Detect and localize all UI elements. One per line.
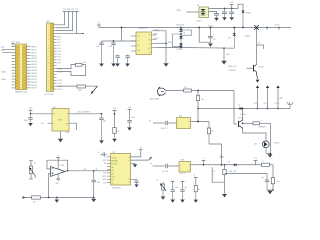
IC U2 pin stubs bbox=[131, 31, 157, 51]
svg-text:5V1: 5V1 bbox=[228, 37, 231, 39]
svg-text:10k: 10k bbox=[277, 181, 280, 183]
svg-text:V+: V+ bbox=[137, 41, 139, 43]
ground below C14 bbox=[28, 123, 33, 126]
svg-text:PB0.14: PB0.14 bbox=[31, 61, 38, 63]
svg-text:10u: 10u bbox=[184, 187, 187, 189]
svg-text:R2: R2 bbox=[34, 163, 36, 165]
wire PS1 out+ bbox=[209, 8, 214, 10]
svg-text:PB1.18: PB1.18 bbox=[31, 70, 38, 72]
svg-text:VCC V+: VCC V+ bbox=[180, 173, 186, 175]
svg-text:D3: D3 bbox=[183, 32, 185, 34]
capacitor C19 bbox=[261, 174, 269, 191]
ground arrow below Q3 bbox=[256, 80, 260, 83]
svg-text:V18: V18 bbox=[71, 9, 74, 11]
capacitor C15 bbox=[99, 114, 105, 140]
wire line in to C18 bbox=[150, 163, 165, 166]
svg-text:V+: V+ bbox=[193, 175, 195, 177]
svg-text:100n: 100n bbox=[175, 187, 179, 189]
wire opamp out to U3 bbox=[65, 170, 111, 172]
ground below loop bbox=[222, 194, 227, 197]
svg-text:2k2: 2k2 bbox=[184, 87, 187, 89]
connector J1 name label bbox=[47, 21, 51, 23]
rectifier PS1 body bbox=[199, 7, 209, 18]
ground below C20 bbox=[170, 200, 175, 203]
ground below C19 R18 bbox=[267, 191, 272, 195]
wire R15 to tbar net bbox=[209, 144, 222, 165]
ground below C16 bbox=[127, 127, 132, 130]
svg-text:7: 7 bbox=[53, 124, 54, 126]
svg-text:1k: 1k bbox=[213, 171, 215, 173]
svg-text:1k5: 1k5 bbox=[84, 62, 87, 64]
svg-text:100n C17: 100n C17 bbox=[161, 128, 168, 130]
ground below C11 bbox=[111, 64, 116, 67]
svg-text:BUZZ1: BUZZ1 bbox=[274, 143, 279, 145]
svg-text:OSC1: OSC1 bbox=[102, 176, 107, 178]
capacitor C21 bbox=[180, 181, 187, 199]
wire J1 pin to R10 bbox=[57, 85, 78, 87]
wire U3 vcc pin up bbox=[131, 149, 141, 157]
wire mic to Q4 base bbox=[234, 91, 237, 125]
IC U3 value bbox=[112, 187, 122, 189]
svg-text:4k7: 4k7 bbox=[198, 189, 201, 191]
ground below oscillator bbox=[58, 139, 63, 143]
microphone jack label bbox=[150, 98, 160, 101]
svg-text:10k: 10k bbox=[201, 99, 204, 101]
ground below RV1 bbox=[161, 197, 166, 200]
ground below C13 bbox=[125, 64, 130, 67]
diode chain labels bbox=[176, 25, 185, 51]
svg-text:CLK 14.7456MHZ: CLK 14.7456MHZ bbox=[77, 112, 91, 114]
svg-text:OUT3: OUT3 bbox=[275, 103, 279, 105]
transistor Q4 bbox=[239, 119, 243, 129]
wire loop to gnd bbox=[224, 182, 226, 194]
small part above U3 bbox=[98, 152, 108, 156]
diode D5 on audio bus bbox=[238, 105, 242, 110]
buzzer label bbox=[274, 143, 279, 145]
svg-text:V+: V+ bbox=[140, 147, 142, 149]
power gnd labels bbox=[226, 54, 237, 72]
wire U3 bottom-right pin bbox=[131, 178, 137, 180]
svg-text:1N4007 3X: 1N4007 3X bbox=[176, 25, 185, 27]
capacitor C11 bbox=[109, 41, 116, 64]
svg-text:C9: C9 bbox=[98, 152, 100, 154]
transistor Q4 labels bbox=[238, 114, 247, 120]
svg-text:T1: T1 bbox=[148, 35, 150, 37]
svg-text:2: 2 bbox=[180, 170, 181, 172]
IC3 name bbox=[179, 116, 183, 118]
svg-text:V+: V+ bbox=[57, 155, 59, 157]
svg-text:BE-MOD: BE-MOD bbox=[112, 161, 119, 163]
wire audio in to C17 bbox=[149, 120, 165, 123]
svg-text:PB1.19: PB1.19 bbox=[31, 73, 38, 75]
diode D4 bbox=[179, 43, 182, 47]
svg-text:V+: V+ bbox=[202, 158, 204, 160]
svg-text:2: 2 bbox=[178, 126, 179, 128]
oscillator Q5 name bbox=[53, 107, 56, 109]
svg-text:PB1.25: PB1.25 bbox=[31, 82, 38, 84]
wire Q4 collector up bbox=[242, 109, 244, 120]
wire JP2 left stubs bbox=[2, 50, 11, 53]
wire Q4 emitter down bbox=[243, 129, 267, 140]
ground below bottom bus bbox=[55, 198, 60, 203]
wire buzzer join bbox=[266, 153, 271, 155]
svg-text:T2: T2 bbox=[148, 44, 150, 46]
supply bar above JP2 bbox=[11, 41, 14, 46]
svg-text:PB0.11: PB0.11 bbox=[31, 52, 38, 54]
svg-text:4k7: 4k7 bbox=[211, 130, 214, 132]
svg-text:E1: E1 bbox=[258, 43, 260, 45]
svg-text:PB1.26: PB1.26 bbox=[31, 85, 38, 87]
resistor R20 bbox=[32, 196, 41, 204]
resistor R13 bbox=[242, 120, 271, 125]
connector arrows K1 K2 K3 bbox=[256, 85, 280, 109]
wire U2 left cap bus bbox=[102, 40, 122, 42]
resistor R9 bbox=[76, 62, 87, 66]
microphone jack X3 bbox=[158, 87, 184, 96]
svg-text:100n: 100n bbox=[24, 120, 28, 122]
svg-text:PB1.21: PB1.21 bbox=[31, 79, 38, 81]
svg-text:1N4007: 1N4007 bbox=[177, 49, 183, 51]
supply label C16 bbox=[128, 107, 131, 109]
svg-text:OUT2: OUT2 bbox=[264, 103, 268, 105]
IC U3 left labels bbox=[102, 157, 107, 185]
capacitor C16 bbox=[127, 109, 135, 127]
wire osc gnd pin bbox=[61, 131, 70, 139]
wire opamp plus input bbox=[48, 173, 51, 198]
IC U3 name bbox=[113, 152, 116, 154]
capacitor C13 bbox=[125, 55, 130, 64]
resistor R18 bbox=[271, 177, 279, 184]
wire U3 pin right arrow bbox=[131, 157, 152, 160]
wire U2 pin to gnd drop bbox=[157, 31, 167, 63]
svg-text:R1: R1 bbox=[148, 39, 150, 41]
wire VIN to PS1 bbox=[187, 11, 200, 13]
resistor R16 bbox=[262, 161, 270, 166]
diode D1 label bbox=[246, 13, 252, 15]
svg-text:3V3: 3V3 bbox=[128, 107, 131, 109]
connector JP2 pins 1-30 bbox=[12, 45, 31, 89]
wire U3 gnd pin bbox=[131, 162, 136, 165]
supply bar K-line bbox=[220, 155, 224, 157]
svg-text:OUT1: OUT1 bbox=[253, 103, 257, 105]
resistor R12 bbox=[196, 95, 203, 101]
connector arrow labels bbox=[253, 98, 283, 105]
connector JP2 body bbox=[16, 44, 27, 90]
ground below buzzer bbox=[268, 154, 273, 157]
svg-text:8: 8 bbox=[189, 121, 190, 123]
zener DZ1 label bbox=[228, 36, 250, 40]
wire opamp vcc bbox=[57, 158, 59, 169]
svg-text:1: 1 bbox=[178, 121, 179, 123]
rectifier PS1 labels bbox=[197, 5, 202, 22]
svg-text:DBG1: DBG1 bbox=[1, 79, 6, 81]
diode D7 bbox=[228, 162, 236, 167]
ground below C23 bbox=[91, 199, 96, 202]
net label VIN bbox=[177, 10, 182, 12]
resistor R15 bbox=[207, 122, 213, 145]
svg-text:C2+: C2+ bbox=[137, 50, 140, 52]
ground below C10 bbox=[99, 64, 104, 67]
svg-text:D5: D5 bbox=[238, 105, 240, 107]
svg-text:33p: 33p bbox=[103, 120, 106, 122]
svg-text:JACK-3.5MM: JACK-3.5MM bbox=[150, 98, 160, 101]
svg-text:1u: 1u bbox=[129, 57, 131, 59]
LED D6 label bbox=[254, 144, 258, 146]
wire IC3 out bbox=[191, 121, 210, 123]
svg-text:SPEAKER: SPEAKER bbox=[259, 126, 267, 129]
IC U2 right net labels bbox=[154, 29, 173, 44]
diode D1 bbox=[242, 10, 245, 28]
svg-text:100n: 100n bbox=[96, 46, 100, 48]
svg-text:IN+: IN+ bbox=[112, 167, 115, 169]
wire audio node drop bbox=[197, 91, 199, 123]
svg-text:4: 4 bbox=[189, 165, 190, 167]
cap stack labels bbox=[180, 173, 186, 175]
svg-text:3: 3 bbox=[189, 170, 190, 172]
opamp lower pin bbox=[55, 174, 60, 185]
supply bar mid bbox=[254, 158, 258, 165]
wire opamp feedback bbox=[47, 160, 68, 171]
svg-text:PB1.27: PB1.27 bbox=[31, 88, 38, 90]
ground below C21 bbox=[180, 200, 185, 203]
ground right of U3 bbox=[133, 164, 138, 167]
svg-text:LPC-P2106: LPC-P2106 bbox=[45, 94, 55, 96]
svg-text:X2-2: X2-2 bbox=[1, 47, 5, 49]
shield symbol bbox=[287, 102, 293, 109]
wire D2 bypass loop right bbox=[181, 30, 192, 35]
wire gnd tie bbox=[267, 189, 274, 191]
net labels on audio wire bbox=[84, 168, 98, 171]
wire rail to D2 bbox=[180, 27, 182, 29]
svg-text:PB0.12: PB0.12 bbox=[31, 55, 38, 57]
varistor RV1 bbox=[156, 180, 166, 196]
IC U2 name label bbox=[139, 26, 148, 29]
net flag arrow BSL bbox=[91, 86, 98, 94]
svg-text:PWM_OUT: PWM_OUT bbox=[228, 66, 238, 68]
wire J1 top power connections bbox=[57, 12, 77, 34]
capacitor C1 bbox=[214, 14, 219, 18]
capacitor C3 bbox=[229, 9, 234, 18]
svg-text:10n: 10n bbox=[261, 177, 264, 179]
capacitor C12 bbox=[115, 55, 120, 64]
transistor Q3 labels bbox=[228, 66, 263, 68]
connector J1 value label bbox=[45, 94, 55, 96]
diode D3 bbox=[179, 36, 182, 43]
ground below R19 bbox=[194, 200, 199, 203]
wire R13 to buzzer bbox=[259, 123, 271, 153]
wire R11 to node bbox=[192, 90, 235, 92]
wire bottom bus bbox=[23, 197, 95, 199]
svg-text:3V3: 3V3 bbox=[113, 108, 116, 110]
supply bar opamp bbox=[56, 155, 60, 158]
svg-text:3V3: 3V3 bbox=[63, 9, 66, 11]
IC U2 body bbox=[136, 32, 152, 55]
supply VCC bars above J1 bbox=[63, 9, 79, 11]
supply bar U3 bbox=[139, 147, 143, 149]
svg-text:LINE_OUT: LINE_OUT bbox=[229, 171, 238, 173]
svg-text:SOUND: SOUND bbox=[240, 114, 247, 116]
resistor R19 bbox=[194, 178, 201, 200]
net label bus2 bbox=[229, 171, 238, 173]
svg-text:PB1.16: PB1.16 bbox=[31, 64, 38, 66]
svg-text:14: 14 bbox=[53, 114, 55, 116]
diode D2 bbox=[179, 28, 182, 37]
svg-text:DB107: DB107 bbox=[197, 20, 202, 22]
capacitor C14 bbox=[24, 114, 33, 123]
resistor R10 bbox=[77, 85, 86, 92]
svg-text:BC639: BC639 bbox=[258, 66, 263, 68]
svg-text:10n C18: 10n C18 bbox=[162, 171, 168, 173]
svg-text:PB0.13: PB0.13 bbox=[31, 58, 38, 60]
resistor R19 top label bbox=[193, 175, 195, 177]
wire Q3 emitter bbox=[257, 74, 258, 79]
wire D3 bypass loop left bbox=[173, 33, 182, 47]
wire PS1 out- bbox=[209, 12, 217, 14]
svg-text:X2-3: X2-3 bbox=[1, 50, 5, 52]
ground below C22 bbox=[134, 184, 138, 187]
wire osc en bbox=[69, 123, 77, 130]
wire VCC drop to U2 bbox=[121, 27, 136, 41]
ground below U2 drop bbox=[163, 63, 168, 67]
svg-text:MT8870-ISO: MT8870-ISO bbox=[112, 187, 122, 189]
svg-text:D7: D7 bbox=[228, 162, 230, 164]
ground below R14 bbox=[112, 139, 117, 142]
connector J1 right net labels bbox=[57, 36, 63, 91]
wire rail L-drop bbox=[198, 27, 210, 43]
ground below C15 bbox=[99, 140, 104, 143]
capacitor C22 bbox=[135, 179, 139, 184]
wire J1 pin4 extension bbox=[77, 33, 84, 34]
svg-text:5: 5 bbox=[189, 126, 190, 128]
svg-text:C1+: C1+ bbox=[137, 36, 140, 38]
wire feedback loop at J1 bbox=[57, 65, 86, 76]
loop rect with R17 bbox=[212, 165, 226, 182]
transistor Q1 on rail bbox=[254, 25, 259, 64]
net flag bottom-left bbox=[23, 196, 26, 199]
wire osc out bbox=[69, 113, 102, 115]
capacitor C17 bbox=[161, 121, 177, 130]
wire IC4 out bus bbox=[191, 164, 274, 166]
IC4 name bbox=[181, 160, 186, 162]
svg-text:100n: 100n bbox=[109, 46, 113, 48]
ground below C12 bbox=[115, 64, 120, 67]
connector JP2 left net labels bbox=[1, 47, 6, 81]
wire cap bus up-over bbox=[238, 4, 243, 10]
ground below C3 bbox=[229, 17, 234, 20]
capacitor C23 bbox=[92, 171, 101, 198]
svg-text:10k: 10k bbox=[33, 201, 36, 203]
capacitor C18 bbox=[162, 164, 179, 173]
LED D6 bbox=[262, 140, 269, 154]
svg-text:VD-VD: VD-VD bbox=[112, 157, 118, 159]
svg-text:DBG0: DBG0 bbox=[1, 72, 6, 74]
svg-text:OSC2: OSC2 bbox=[102, 179, 107, 181]
svg-text:V+: V+ bbox=[220, 155, 222, 157]
op-amp label bbox=[60, 164, 65, 167]
ground below C2 bbox=[222, 17, 227, 20]
resistor R14 bbox=[113, 110, 119, 138]
connector J1 pins bbox=[47, 24, 56, 91]
IC U3 body bbox=[111, 154, 131, 186]
ground arrow power gnd bbox=[221, 61, 226, 65]
wire ground net bbox=[180, 47, 234, 49]
supply bar osc VCC bbox=[29, 108, 33, 114]
capacitor C20 bbox=[171, 181, 179, 199]
svg-text:VCC33: VCC33 bbox=[274, 24, 279, 26]
wire osc pin2 stub bbox=[41, 123, 52, 125]
wire U2 pin5 to diode chain bbox=[157, 47, 182, 49]
svg-text:PB1.20: PB1.20 bbox=[31, 76, 38, 78]
capacitor C4 electrolytic bbox=[208, 27, 216, 44]
ground below C1 bbox=[214, 18, 219, 21]
wire bus corner down bbox=[272, 165, 274, 190]
zener DZ1 bbox=[233, 27, 236, 49]
svg-text:HEADER 15X2: HEADER 15X2 bbox=[15, 91, 28, 94]
svg-text:PWRGND: PWRGND bbox=[229, 70, 237, 72]
wire R10 to net arrow bbox=[86, 85, 98, 87]
supply bar +12V bbox=[230, 2, 235, 8]
wire VCC rail bbox=[99, 27, 291, 29]
supply bar R14 bbox=[113, 108, 117, 110]
op-amp IC2A bbox=[51, 167, 66, 177]
supply bar at IC4 out bbox=[202, 158, 206, 165]
resistor R11 bbox=[184, 87, 192, 92]
svg-text:100n: 100n bbox=[97, 182, 101, 184]
IC4 body bbox=[179, 162, 191, 173]
trimmer R21 labels bbox=[34, 163, 37, 179]
svg-text:10k: 10k bbox=[34, 177, 37, 179]
IC3 body bbox=[177, 118, 191, 129]
svg-text:10k: 10k bbox=[116, 131, 119, 133]
wire tap bus2 bbox=[225, 173, 268, 175]
trimmer R21 bbox=[29, 161, 36, 180]
svg-text:3V3: 3V3 bbox=[12, 41, 15, 43]
connector J1 body bbox=[47, 23, 54, 92]
rail end labels bbox=[266, 24, 279, 30]
rail net label bbox=[207, 25, 213, 28]
svg-text:1u: 1u bbox=[119, 57, 121, 59]
wire rail stub right bbox=[257, 43, 264, 49]
capacitor C10 bbox=[96, 41, 104, 64]
ground below C4 bbox=[208, 44, 213, 47]
wire VCC to osc pin1 bbox=[30, 113, 52, 115]
IC U3 left pin stubs bbox=[107, 157, 111, 183]
oscillator Q5 body bbox=[52, 109, 69, 132]
connector JP2 name/value labels bbox=[15, 42, 28, 93]
svg-text:R2: R2 bbox=[148, 48, 150, 50]
wire top cap bus bbox=[214, 8, 239, 10]
svg-text:G1: G1 bbox=[197, 5, 199, 7]
svg-text:MAX3232: MAX3232 bbox=[139, 26, 148, 29]
svg-text:1N5819: 1N5819 bbox=[246, 13, 252, 15]
wire audio bus bbox=[197, 108, 290, 110]
capacitor C2 bbox=[222, 9, 227, 18]
connector JP2 right net labels bbox=[31, 46, 38, 89]
svg-text:3V3: 3V3 bbox=[29, 108, 32, 110]
svg-text:CS RDY: CS RDY bbox=[112, 164, 119, 166]
svg-text:BZX85: BZX85 bbox=[245, 36, 250, 38]
svg-text:1k: 1k bbox=[261, 120, 263, 122]
transistor Q3 bbox=[247, 65, 257, 74]
svg-text:8: 8 bbox=[67, 114, 68, 116]
svg-text:1: 1 bbox=[180, 165, 181, 167]
wire U2 pin4 to drop bbox=[157, 42, 167, 44]
svg-text:100n: 100n bbox=[131, 117, 135, 119]
svg-text:T2OUT: T2OUT bbox=[154, 38, 161, 40]
osc out label bbox=[77, 112, 91, 114]
wire gnd drop at x224 bbox=[223, 48, 225, 60]
svg-text:1k: 1k bbox=[262, 161, 264, 163]
